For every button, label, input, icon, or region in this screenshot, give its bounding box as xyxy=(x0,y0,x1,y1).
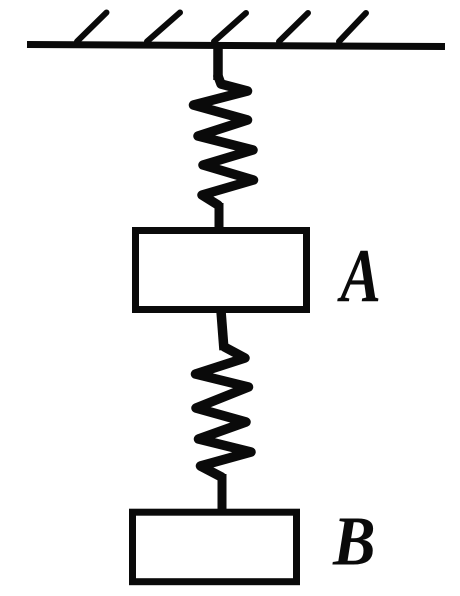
svg-text:A: A xyxy=(337,234,381,318)
rod from block A to spring S2 xyxy=(221,311,224,350)
label B xyxy=(332,503,375,580)
block A xyxy=(136,231,307,310)
suspension rod from ceiling xyxy=(213,47,223,80)
rod from spring S2 to block B xyxy=(218,474,227,511)
ceiling line xyxy=(27,45,445,47)
hatch 1 xyxy=(77,13,107,42)
spring S1 xyxy=(194,76,254,205)
spring S2 xyxy=(196,347,252,477)
block B xyxy=(133,512,297,582)
svg-text:B: B xyxy=(332,503,375,580)
hatch 3 xyxy=(214,13,246,42)
hatch 4 xyxy=(279,13,308,42)
hatch 5 xyxy=(339,13,366,42)
rod from spring S1 to block A xyxy=(215,203,224,229)
hatch 2 xyxy=(147,13,180,42)
label A xyxy=(337,234,381,318)
